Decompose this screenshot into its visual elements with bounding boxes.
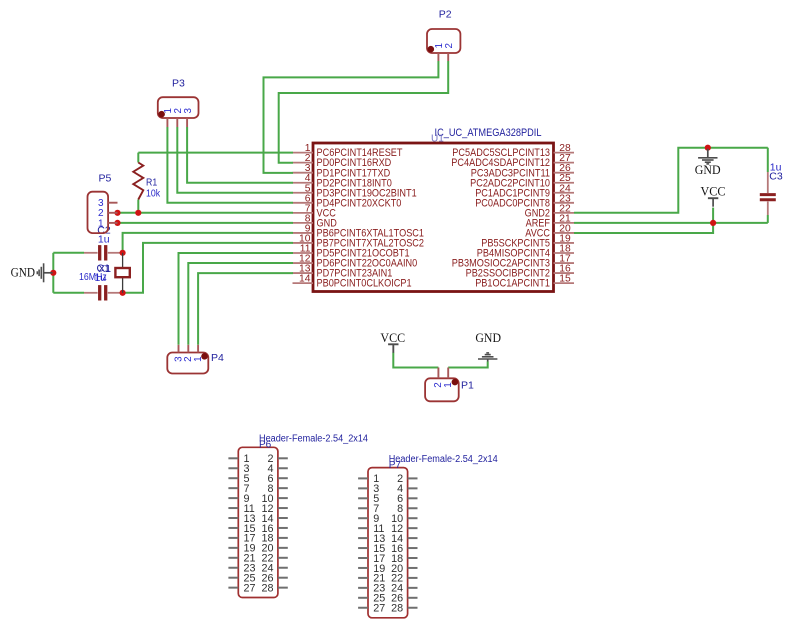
svg-text:27: 27 (244, 582, 256, 594)
svg-text:1: 1 (98, 218, 104, 229)
svg-text:P2: P2 (439, 8, 452, 20)
svg-text:P6: P6 (259, 440, 272, 451)
svg-text:Header-Female-2.54_2x14: Header-Female-2.54_2x14 (259, 434, 368, 445)
svg-text:P3: P3 (172, 77, 185, 89)
svg-text:GND: GND (695, 163, 721, 177)
svg-text:IC_UC_ATMEGA328PDIL: IC_UC_ATMEGA328PDIL (435, 127, 542, 139)
svg-text:28: 28 (261, 582, 273, 594)
svg-text:VCC: VCC (380, 331, 405, 345)
svg-text:P4: P4 (211, 352, 224, 364)
svg-text:28: 28 (391, 603, 403, 615)
svg-text:2: 2 (444, 43, 455, 48)
svg-text:P1: P1 (461, 380, 474, 392)
svg-text:GND: GND (475, 331, 501, 345)
svg-text:P5: P5 (99, 173, 112, 185)
svg-text:27: 27 (373, 603, 385, 615)
svg-text:C3: C3 (769, 170, 783, 182)
svg-text:PB1OC1APCINT1: PB1OC1APCINT1 (475, 278, 550, 290)
svg-text:3: 3 (183, 108, 194, 114)
svg-text:1u: 1u (95, 272, 107, 284)
svg-text:U1: U1 (431, 134, 444, 145)
svg-text:10k: 10k (146, 188, 161, 200)
svg-text:VCC: VCC (701, 185, 726, 199)
svg-text:14: 14 (299, 274, 311, 285)
svg-text:Header-Female-2.54_2x14: Header-Female-2.54_2x14 (389, 454, 498, 465)
svg-text:15: 15 (559, 274, 571, 285)
svg-text:GND: GND (11, 266, 35, 280)
svg-text:PB0PCINT0CLKOICP1: PB0PCINT0CLKOICP1 (317, 278, 412, 290)
svg-text:1u: 1u (98, 234, 110, 246)
svg-text:P7: P7 (389, 460, 402, 471)
